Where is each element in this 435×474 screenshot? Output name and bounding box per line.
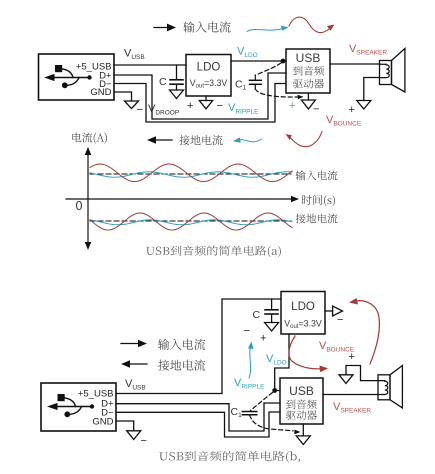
USB audio driver box (bottom) bbox=[280, 378, 323, 424]
legend ground arrow bbox=[121, 360, 147, 367]
speaker ground wire (top) bbox=[364, 78, 380, 101]
LDO output wire + junction node bbox=[231, 60, 286, 62]
LDO right ground (sideways) bbox=[325, 306, 343, 316]
USB pin labels (bottom) bbox=[78, 389, 114, 428]
svg-text:GND: GND bbox=[90, 87, 111, 98]
svg-text:Vout=3.3V: Vout=3.3V bbox=[190, 78, 228, 90]
svg-text:GND: GND bbox=[92, 417, 113, 428]
lower waveform: dashed mean bbox=[90, 220, 291, 222]
red squiggle (graph legend) bbox=[286, 132, 323, 147]
USB connector box (bottom) bbox=[41, 383, 116, 431]
svg-text:C: C bbox=[253, 309, 261, 321]
caption (b) bbox=[159, 451, 300, 463]
legend ground-current arrow (left) bbox=[147, 136, 172, 143]
C1 (bottom, dashed) bbox=[242, 393, 300, 435]
wire D- (top) routed under LDO bbox=[114, 84, 286, 123]
red arrow: LDO to speaker ground (bottom) bbox=[289, 336, 328, 372]
axis label 电流(A) bbox=[72, 132, 107, 144]
capacitor C1 (dashed, top) bbox=[250, 63, 304, 99]
speaker (bottom) bbox=[378, 366, 402, 408]
svg-text:Vout=3.3V: Vout=3.3V bbox=[284, 319, 322, 331]
ground (USB bottom) bbox=[127, 431, 141, 440]
USB trident symbol (bottom) bbox=[47, 394, 94, 417]
legend input-current text bbox=[183, 21, 230, 32]
LDO bottom wire to driver + node bbox=[275, 334, 289, 391]
svg-text:USB: USB bbox=[296, 51, 321, 65]
ground (speaker top) bbox=[357, 101, 371, 110]
Y axis bbox=[66, 147, 299, 250]
svg-text:−: − bbox=[313, 104, 319, 116]
caption (a) bbox=[146, 246, 281, 258]
svg-text:0: 0 bbox=[76, 199, 83, 213]
svg-text:−: − bbox=[244, 325, 250, 337]
upper waveform: dashed mean bbox=[90, 173, 291, 175]
ground (driver bottom) bbox=[296, 424, 310, 445]
speaker ground wire (bottom) bbox=[346, 366, 378, 381]
wire +5 to LDO (bottom) bbox=[116, 299, 281, 394]
cyan squiggle arrow (top) bbox=[247, 26, 289, 32]
capacitor C (bottom) bbox=[265, 299, 279, 331]
svg-text:−: − bbox=[141, 435, 147, 447]
legend input-current arrow bbox=[154, 24, 176, 32]
wire GND (top) bbox=[114, 92, 132, 101]
red squiggle arrow (top) bbox=[289, 17, 335, 33]
ground (LDO top) bbox=[199, 96, 212, 109]
cyan squiggle (graph legend) bbox=[233, 137, 262, 142]
driver output wire to speaker bbox=[330, 63, 380, 65]
capacitor C (top input cap) bbox=[170, 65, 184, 99]
ground (speaker bottom) bbox=[339, 375, 353, 384]
legend input arrow bbox=[121, 340, 147, 347]
wire D+ (bottom) bbox=[116, 403, 280, 431]
speaker (top) bbox=[380, 49, 405, 93]
ground (USB top) bbox=[125, 101, 139, 109]
wire +5_USB to LDO bbox=[114, 64, 186, 66]
USB audio driver box (top) bbox=[286, 49, 330, 93]
wire D- (bottom) bbox=[116, 412, 280, 437]
LDO box (top) bbox=[186, 55, 231, 97]
svg-text:+: + bbox=[349, 104, 355, 116]
svg-text:−: − bbox=[337, 314, 343, 326]
时间(s) bbox=[302, 195, 335, 207]
red arrow: speaker to LDO output (bottom) bbox=[349, 298, 379, 364]
svg-text:−: − bbox=[137, 104, 143, 116]
upper waveform: cyan bbox=[90, 172, 292, 177]
USB connector box (top) bbox=[39, 54, 115, 100]
driver output wire (bottom) bbox=[323, 394, 378, 396]
svg-text:C: C bbox=[159, 76, 167, 88]
ground (driver top) bbox=[301, 93, 315, 109]
LDO box (bottom) bbox=[281, 292, 325, 335]
svg-text:LDO: LDO bbox=[291, 301, 315, 313]
svg-text:+: + bbox=[260, 333, 266, 345]
wire D+ (top) routed under LDO bbox=[114, 73, 286, 119]
svg-text:+: + bbox=[289, 100, 295, 112]
svg-text:LDO: LDO bbox=[197, 62, 221, 74]
upper waveform: red bbox=[90, 164, 292, 182]
wire GND (bottom) bbox=[116, 421, 134, 431]
svg-text:USB: USB bbox=[289, 384, 314, 398]
svg-text:+: + bbox=[187, 100, 193, 112]
svg-text:−: − bbox=[217, 100, 223, 112]
USB trident symbol (top) bbox=[44, 65, 92, 88]
USB pin labels (top) bbox=[76, 62, 112, 99]
